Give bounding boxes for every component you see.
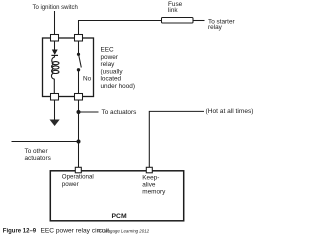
svg-text:relay: relay — [208, 24, 223, 31]
node: to other actuators junction — [77, 140, 81, 144]
svg-text:located: located — [101, 76, 122, 83]
svg-text:Figure 12–9: Figure 12–9 — [3, 229, 37, 235]
wire to other actuators — [12, 141, 79, 143]
svg-text:link: link — [168, 7, 178, 14]
terminal bottom-left of relay — [51, 94, 59, 101]
svg-text:Keep-: Keep- — [142, 175, 159, 182]
svg-text:To actuators: To actuators — [102, 109, 137, 116]
terminal top-right of relay — [75, 35, 83, 42]
svg-text:alive: alive — [142, 182, 156, 189]
diode D1 (clamping diode) — [52, 50, 58, 55]
terminal top-left of relay — [51, 35, 59, 42]
svg-text:power: power — [101, 54, 119, 61]
svg-text:relay: relay — [101, 61, 116, 68]
switch lever (normally open) — [79, 56, 82, 68]
svg-text:power: power — [62, 181, 79, 188]
wire coil branch upper — [54, 41, 56, 50]
wire switch branch lower — [78, 71, 80, 94]
node: to actuators junction — [77, 110, 81, 114]
wire hot at all times — [149, 111, 204, 167]
switch contact bottom — [77, 68, 80, 71]
wire fuse to starter relay — [193, 20, 205, 22]
svg-text:To other: To other — [25, 148, 49, 155]
svg-text:To ignition switch: To ignition switch — [33, 5, 78, 11]
terminal keep-alive pin — [146, 167, 152, 173]
terminal bottom-right of relay — [75, 94, 83, 101]
fuse link F1 — [162, 18, 194, 24]
svg-text:© Cengage Learning 2012: © Cengage Learning 2012 — [98, 229, 150, 234]
svg-text:(usually: (usually — [101, 68, 124, 75]
svg-text:No: No — [83, 76, 92, 83]
wire from ignition switch — [54, 11, 56, 38]
PCM box U1 — [50, 171, 183, 221]
relay coil L1 — [51, 56, 59, 94]
svg-text:memory: memory — [142, 189, 166, 196]
svg-text:(Hot at all times): (Hot at all times) — [206, 108, 254, 115]
ground arrow — [50, 120, 60, 127]
wire switch branch upper — [78, 41, 80, 53]
svg-text:Operational: Operational — [62, 174, 94, 181]
wire switch output down to PCM — [78, 101, 80, 168]
svg-text:under hood): under hood) — [101, 83, 135, 90]
wire top horizontal to fuse — [79, 21, 162, 39]
switch contact top — [77, 53, 80, 56]
terminal operational power pin — [75, 167, 81, 173]
wire to actuators stub — [79, 111, 99, 113]
svg-text:EEC: EEC — [101, 47, 115, 54]
relay box K1 (EEC power relay) — [43, 38, 94, 97]
svg-text:PCM: PCM — [112, 213, 127, 220]
svg-text:actuators: actuators — [25, 155, 51, 162]
wire coil to ground — [54, 101, 56, 121]
